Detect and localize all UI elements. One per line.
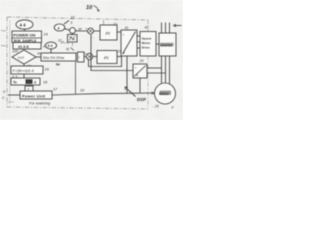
- decision diamond D1: [12, 50, 36, 64]
- label 12: [58, 39, 62, 43]
- feedback wire fb1: [89, 57, 122, 67]
- wire: [28, 85, 30, 86]
- wire: [156, 43, 159, 45]
- wire stub from border: [103, 20, 105, 25]
- arrow at top right: [174, 25, 182, 27]
- wire: [94, 30, 101, 32]
- wire: [23, 64, 25, 66]
- label 10 with leader arrow: [86, 5, 93, 11]
- connector ellipse E3: [54, 24, 65, 31]
- svg-text:4: 4: [34, 81, 36, 85]
- svg-text:=: =: [123, 51, 125, 55]
- svg-text:100: 100: [12, 50, 18, 54]
- border tick: [1, 30, 6, 33]
- long wire W1 to motor: [52, 93, 155, 95]
- svg-text:41: 41: [125, 26, 129, 30]
- wire: [50, 49, 52, 53]
- system boundary dash-dot box 10: [7, 17, 148, 20]
- block B1 (two-line box): [12, 31, 42, 43]
- wire: [117, 31, 121, 33]
- summing junction S2: [86, 53, 92, 59]
- svg-text:Speed: Speed: [142, 37, 151, 41]
- power unit block B8: [20, 91, 52, 99]
- svg-text:t: t: [79, 56, 80, 60]
- svg-text:inverter: inverter: [160, 43, 173, 47]
- label 1h: [61, 41, 65, 45]
- label 25: [153, 105, 159, 109]
- wire: [23, 74, 25, 78]
- svg-text:=: =: [136, 73, 138, 77]
- wire: [36, 56, 41, 58]
- label 15: [43, 45, 48, 49]
- svg-text:11: 11: [71, 15, 75, 20]
- terminal ellipse E1: [16, 20, 33, 29]
- label 16: [80, 89, 85, 93]
- svg-text:~: ~: [135, 66, 137, 70]
- label 20: [139, 59, 144, 63]
- three-phase wires down to motor: [161, 56, 163, 84]
- svg-text:20: 20: [139, 59, 144, 63]
- label 100: [12, 50, 18, 54]
- svg-text:- 25: - 25: [153, 105, 159, 109]
- caption For watering: [29, 102, 51, 106]
- svg-text:+: +: [85, 27, 87, 31]
- feedback wire fb2: [91, 35, 133, 71]
- svg-text:DSP: DSP: [137, 97, 146, 102]
- converter block T1: [121, 30, 137, 56]
- svg-text:42: 42: [145, 26, 149, 30]
- tick mark: [65, 43, 70, 45]
- wire stub: [72, 42, 74, 46]
- svg-text:C: C: [2, 96, 5, 100]
- svg-text:t<t?: t<t?: [18, 56, 24, 60]
- block B3 (reference table): [41, 53, 76, 61]
- svg-text:~: ~: [122, 33, 124, 37]
- label 13: [113, 23, 117, 27]
- label 21: [117, 50, 122, 54]
- label 42: [145, 26, 149, 30]
- label Iw: [56, 63, 60, 67]
- inner boundary line: [9, 20, 11, 104]
- svg-text:21: 21: [117, 50, 122, 54]
- label Vh: [12, 75, 18, 79]
- wires from B9 to phase lines: [147, 67, 162, 69]
- label 19: [45, 68, 50, 72]
- block B2: [13, 43, 41, 50]
- svg-text:rt: rt: [172, 106, 174, 110]
- svg-text:4 4: 4 4: [20, 23, 27, 28]
- PI block B4: [100, 25, 117, 40]
- svg-text:5: 5: [3, 90, 5, 94]
- svg-text:Iq: Iq: [66, 47, 69, 51]
- wire: [84, 56, 86, 58]
- riser wire from B3: [75, 62, 77, 95]
- svg-text:Te: Te: [13, 81, 17, 85]
- wire B9 down: [139, 78, 141, 93]
- svg-text:4 4: 4 4: [48, 44, 53, 48]
- label 41: [125, 26, 129, 30]
- sensor circle C2: [70, 28, 76, 34]
- label 5: [71, 21, 73, 25]
- label no: [37, 52, 41, 56]
- svg-text:5: 5: [71, 21, 73, 25]
- block B7a: [11, 66, 43, 74]
- label 14: [44, 33, 48, 37]
- wire: [75, 30, 87, 32]
- inverter block T3: [159, 33, 176, 56]
- PI block B6: [97, 51, 117, 64]
- label 18: [43, 81, 48, 85]
- label Iq: [66, 47, 69, 51]
- svg-text:Motor: Motor: [159, 92, 169, 96]
- speed ref label: [79, 27, 83, 31]
- wire: [117, 56, 122, 58]
- wire: [72, 33, 74, 34]
- sensor block: [68, 35, 78, 43]
- tick near label 11: [64, 21, 69, 25]
- svg-text:30w 3% 5%w: 30w 3% 5%w: [43, 56, 65, 60]
- small block V1: [25, 86, 33, 91]
- svg-text:Power Unit: Power Unit: [22, 93, 46, 98]
- svg-text:12: 12: [58, 39, 62, 43]
- summing junction S1: [88, 28, 94, 34]
- svg-text:no: no: [37, 52, 41, 56]
- svg-text:PI: PI: [106, 31, 111, 36]
- svg-text:Iw: Iw: [56, 63, 60, 67]
- limiter block B5: [78, 52, 85, 62]
- svg-text:Drive: Drive: [142, 46, 150, 50]
- svg-text:POWER ON: POWER ON: [13, 33, 35, 38]
- svg-text:41.9.8: 41.9.8: [18, 45, 29, 49]
- driver block T2: [140, 32, 156, 57]
- DSP label with leader: [137, 97, 146, 102]
- border tick: [1, 45, 6, 48]
- label yes: [26, 64, 32, 68]
- wire: [65, 29, 70, 31]
- three-phase wires up: [161, 23, 163, 34]
- aux converter block B9: [133, 64, 147, 78]
- svg-text:F=(tb+n)/2.4: F=(tb+n)/2.4: [13, 69, 34, 73]
- label 11: [71, 15, 75, 20]
- input wire into power unit: [8, 94, 20, 96]
- wires T1 to T2: [137, 35, 140, 37]
- label 17: [53, 88, 58, 92]
- svg-text:10: 10: [86, 5, 93, 11]
- block B7b: [11, 78, 40, 85]
- wire: [93, 56, 97, 58]
- svg-text:Motor: Motor: [142, 41, 151, 45]
- svg-text:PI: PI: [104, 56, 109, 61]
- wire: [24, 29, 26, 31]
- svg-text:For watering: For watering: [29, 102, 51, 106]
- svg-text:+: +: [85, 52, 87, 56]
- border tick: [8, 101, 15, 103]
- connector ellipse E2: [45, 42, 56, 49]
- motor circle 25: [155, 83, 176, 104]
- svg-text:4: 4: [58, 26, 60, 30]
- wire T1 down: [126, 56, 128, 93]
- svg-text:14: 14: [44, 33, 48, 37]
